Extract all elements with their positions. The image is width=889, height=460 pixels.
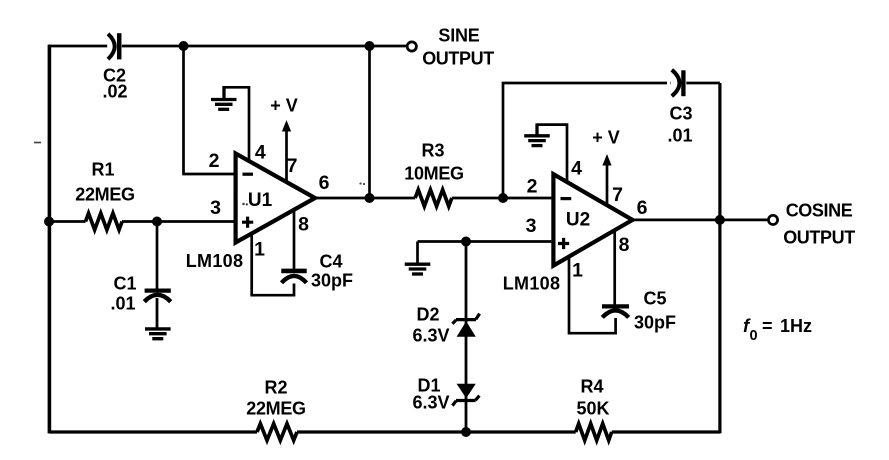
node junction R1 row / C1 branch	[152, 217, 162, 227]
svg-text:R1: R1	[91, 160, 114, 180]
svg-text:COSINE: COSINE	[786, 201, 853, 221]
svg-text:.01: .01	[110, 294, 135, 314]
zener diode D1	[452, 384, 479, 406]
svg-text:U1: U1	[248, 190, 273, 211]
capacitor C2	[108, 33, 119, 59]
svg-text:OUTPUT: OUTPUT	[422, 49, 494, 69]
svg-text:50K: 50K	[576, 399, 609, 419]
wire right rail	[718, 83, 721, 433]
svg-text:U2: U2	[566, 210, 590, 231]
wire from top rail down to U1 pin 2	[184, 46, 234, 174]
svg-text:30pF: 30pF	[311, 271, 353, 291]
svg-text:2: 2	[209, 150, 220, 172]
svg-text:LM108: LM108	[186, 251, 244, 271]
svg-text:6: 6	[319, 172, 330, 194]
svg-text:+ V: + V	[270, 96, 298, 116]
node junction U1 output / sine branch	[365, 193, 375, 203]
capacitor C3	[672, 70, 684, 96]
svg-text:SINE: SINE	[438, 26, 479, 46]
U1 minus input mark	[243, 173, 254, 176]
ground at U2 pin 4	[524, 123, 550, 145]
svg-text:=: =	[762, 316, 773, 336]
node junction left rail / R1	[44, 217, 54, 227]
node junction U2 output / right rail	[715, 215, 725, 225]
capacitor C1	[144, 291, 171, 302]
wire U2 pin 8 down to C5	[613, 230, 616, 304]
wire left rail	[48, 45, 52, 434]
wire U1 output row to R3	[315, 197, 415, 200]
svg-text:C1: C1	[113, 274, 136, 294]
sine output terminal	[407, 42, 416, 51]
ground at U2 pin 3 row	[405, 264, 431, 274]
U2 plus input mark	[558, 238, 569, 249]
node junction bottom rail / zener branch	[461, 427, 471, 437]
op-amp U2	[553, 174, 632, 265]
ground below C1	[145, 329, 171, 339]
stray scan dots near U1	[242, 203, 244, 205]
node junction top rail / inverting branch	[179, 41, 189, 51]
svg-text:30pF: 30pF	[634, 313, 676, 333]
node junction top rail / sine output	[365, 41, 375, 51]
svg-text:10MEG: 10MEG	[404, 164, 464, 184]
wire U2 pin 1 loop to C5	[569, 257, 616, 334]
wire top rail right segment to sine terminal	[122, 45, 407, 48]
op-amp U1	[236, 154, 315, 243]
resistor R2	[257, 424, 297, 441]
wire R1 row from left rail to U1 pin 3	[49, 220, 234, 223]
svg-text:1: 1	[254, 239, 265, 261]
svg-text:22MEG: 22MEG	[246, 399, 306, 419]
svg-text:C5: C5	[643, 289, 666, 309]
wire zener branch vertical	[465, 242, 468, 433]
wire C1 branch down from R1 row	[156, 222, 159, 289]
svg-text:R3: R3	[421, 141, 444, 161]
svg-text:8: 8	[619, 234, 630, 256]
svg-text:6.3V: 6.3V	[412, 326, 449, 346]
wire U2 pin 4 to ground	[537, 125, 567, 183]
U1 plus input mark	[242, 217, 253, 228]
svg-text:3: 3	[210, 197, 221, 219]
svg-text:0: 0	[750, 328, 758, 344]
svg-text:4: 4	[255, 141, 266, 163]
svg-text:1: 1	[572, 260, 583, 282]
zener diode D2	[452, 314, 479, 337]
+V supply arrow for U1 pin 7	[285, 130, 288, 183]
label f0 = 1Hz	[743, 315, 812, 344]
node junction R3 row / C3 branch	[498, 193, 508, 203]
wire top rail left segment	[49, 45, 107, 48]
wire C1 to ground	[156, 298, 159, 328]
wire U1 pin 4 to ground	[224, 87, 249, 162]
svg-text:4: 4	[571, 158, 582, 180]
capacitor C4	[281, 271, 306, 283]
capacitor C5	[602, 306, 629, 317]
svg-text:7: 7	[612, 184, 623, 206]
svg-text:+ V: + V	[592, 128, 620, 148]
svg-text:6: 6	[637, 197, 648, 219]
wire bottom rail segment 1	[49, 430, 257, 433]
wire bottom rail segment 3	[612, 430, 720, 433]
svg-text:LM108: LM108	[503, 274, 561, 294]
stray scan dots near sine branch	[359, 182, 361, 184]
+V supply arrow for U2 pin 7	[606, 164, 609, 206]
wire U1 pin 1 loop to C4	[252, 234, 294, 296]
resistor R4	[576, 424, 612, 441]
svg-text:1Hz: 1Hz	[780, 316, 812, 336]
resistor R3	[415, 190, 452, 207]
wire pin 3 row down to ground	[416, 242, 419, 264]
svg-text:R2: R2	[264, 378, 287, 398]
svg-text:2: 2	[527, 176, 538, 198]
stray scan dash	[34, 142, 41, 144]
wire bottom rail segment 2	[297, 430, 576, 433]
ground at U1 pin 4	[211, 86, 237, 109]
U2 minus input mark	[561, 197, 572, 200]
svg-text:C4: C4	[319, 252, 342, 272]
wire R3 to U2 pin 2	[452, 197, 552, 200]
node junction pin3 row / zener branch	[461, 237, 471, 247]
svg-text:OUTPUT: OUTPUT	[783, 228, 855, 248]
svg-text:R4: R4	[580, 377, 603, 397]
wire sine branch vertical	[368, 46, 371, 198]
wire U1 pin 8 down to C4	[293, 210, 296, 272]
wire U2 output to cosine terminal	[633, 219, 768, 222]
wire C3 to right rail	[686, 82, 720, 85]
svg-text:22MEG: 22MEG	[75, 185, 135, 205]
wire U2 pin 3 row	[418, 240, 552, 243]
svg-text:8: 8	[298, 214, 309, 236]
svg-text:D2: D2	[416, 305, 439, 325]
svg-text:6.3V: 6.3V	[412, 393, 449, 413]
svg-text:.01: .01	[667, 126, 692, 146]
svg-text:C3: C3	[669, 104, 692, 124]
resistor R1	[86, 213, 123, 230]
svg-text:.02: .02	[102, 82, 127, 102]
cosine output terminal	[768, 215, 777, 224]
svg-text:7: 7	[287, 155, 298, 177]
svg-text:3: 3	[526, 215, 537, 237]
wire C3 branch up and over	[503, 83, 671, 198]
